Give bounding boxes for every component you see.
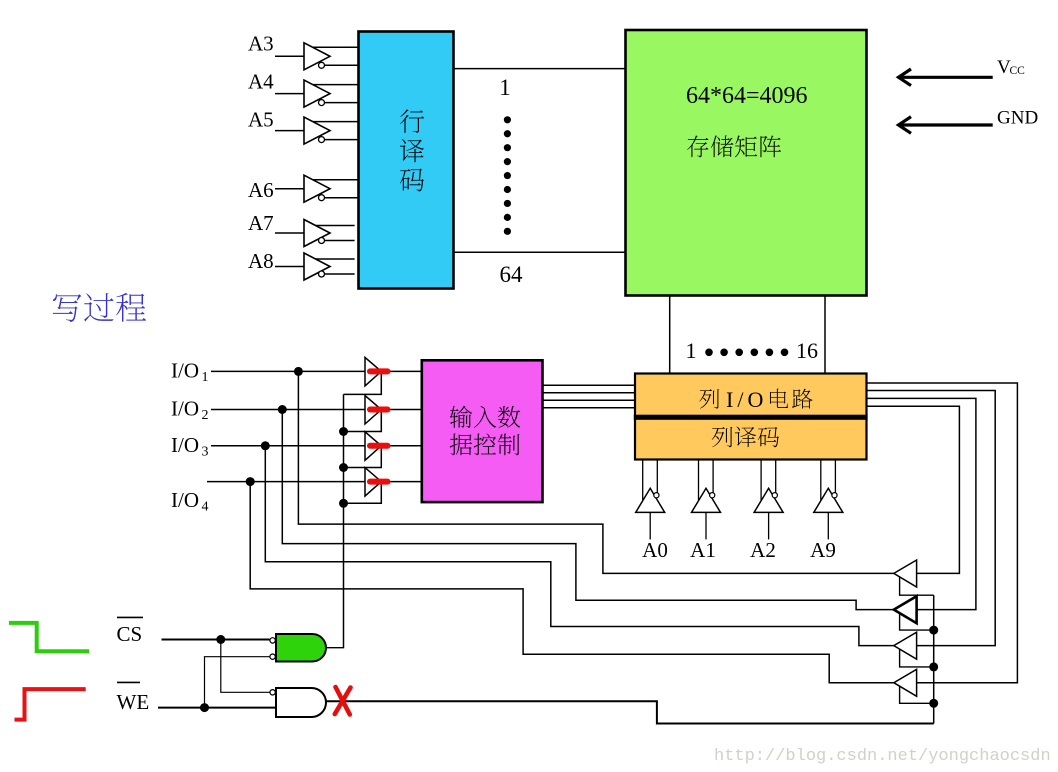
waveform WE (red, rising)	[15, 689, 86, 720]
svg-text:3: 3	[202, 444, 209, 459]
svg-text:I/O: I/O	[171, 397, 199, 421]
wire columnIO-to-R3	[867, 391, 996, 646]
address buffer A8 (with complement bubble)	[275, 253, 355, 280]
wire write-enable bus	[343, 394, 345, 647]
red arrow mark W2	[370, 407, 388, 413]
wire R3-to-I/O3	[265, 446, 894, 646]
ellipsis columns 1..16	[705, 349, 788, 357]
address buffer A7 (with complement bubble)	[275, 220, 355, 247]
column address buffer A1	[692, 460, 721, 539]
svg-text:A6: A6	[248, 178, 274, 202]
wire columnIO-to-R4	[867, 383, 1018, 683]
wire R4-to-I/O4	[250, 482, 894, 683]
svg-text:1: 1	[499, 75, 511, 100]
read buffer R1	[894, 560, 917, 587]
svg-text:A0: A0	[642, 538, 668, 562]
wire WE-to-G1	[205, 657, 270, 708]
wire row 1	[454, 68, 626, 70]
junction read enable bus R3	[929, 662, 938, 671]
wire row 64	[454, 251, 626, 253]
svg-text:WE: WE	[117, 690, 150, 714]
read buffer R3	[894, 632, 917, 659]
svg-text:A4: A4	[248, 70, 274, 94]
junction enable bus W4	[339, 499, 348, 508]
label Vcc	[997, 57, 1025, 78]
red arrow mark W3	[370, 443, 388, 449]
power Vcc arrow	[899, 69, 993, 86]
svg-text:I/O: I/O	[726, 387, 767, 412]
memory matrix box 存储矩阵	[626, 30, 867, 296]
divider column boxes	[634, 415, 868, 420]
write buffer W3	[365, 432, 381, 461]
junction I/O2	[278, 405, 287, 414]
svg-text:GND: GND	[997, 107, 1038, 128]
wire matrix column right	[824, 295, 826, 375]
junction I/O1	[294, 367, 303, 376]
wire R1 enable	[900, 577, 934, 595]
wire R1-to-I/O1	[298, 371, 893, 573]
wire matrix column left	[669, 295, 671, 375]
address buffer A6 (with complement bubble)	[275, 175, 359, 202]
red arrow mark W1	[370, 368, 388, 374]
wire R2 enable	[900, 614, 934, 631]
junction enable bus W3	[339, 463, 348, 472]
port label I/O2	[171, 397, 209, 424]
wire R4 enable	[900, 687, 934, 704]
wire data D4 control-to-columnIO	[543, 407, 636, 409]
wire data D3 control-to-columnIO	[543, 399, 636, 401]
junction WE	[200, 703, 209, 712]
port label I/O3	[171, 433, 209, 460]
column decoder box 列译码	[635, 419, 867, 460]
address buffer A5 (with complement bubble)	[275, 117, 359, 144]
wire R3 enable	[900, 650, 934, 667]
waveform CS (green, falling)	[9, 623, 89, 651]
wire data D2 control-to-columnIO	[543, 392, 636, 394]
wire CS input	[162, 639, 270, 641]
svg-text:2: 2	[202, 408, 209, 423]
AND gate G2 (read select)	[270, 688, 326, 717]
svg-text:64: 64	[500, 262, 524, 287]
column I/O box 列I/O电路	[635, 374, 867, 417]
wire I/O1 input	[211, 370, 422, 372]
wire WE input	[158, 707, 276, 709]
row decoder box 行译码	[359, 32, 454, 289]
memory matrix label 存储矩阵	[687, 135, 708, 157]
wire W1 enable	[344, 371, 382, 394]
svg-text:A8: A8	[248, 249, 274, 273]
column decoder label 列译码	[712, 427, 733, 447]
input data control label 据控制	[450, 434, 472, 456]
AND gate G1 (write select, green)	[270, 634, 326, 662]
svg-text:http://blog.csdn.net/yongchaoc: http://blog.csdn.net/yongchaocsdn	[714, 747, 1051, 766]
port label I/O4	[171, 488, 209, 515]
svg-text:I/O: I/O	[171, 358, 199, 382]
wire W4 enable	[344, 482, 382, 504]
svg-text:I/O: I/O	[171, 433, 199, 457]
red arrow mark W4	[370, 479, 388, 485]
wire R2-to-I/O2	[282, 410, 894, 610]
wire read-enable bus	[933, 595, 935, 723]
wire W2 enable	[344, 410, 382, 432]
column I/O label 列I/O电路	[699, 387, 812, 412]
ground GND arrow	[899, 117, 993, 134]
title 写过程 (write process)	[53, 294, 82, 322]
wire I/O2 input	[211, 409, 422, 411]
write buffer W2	[365, 396, 381, 425]
input data control label 输入数	[450, 406, 472, 428]
wire columnIO-to-R1	[867, 406, 960, 573]
junction I/O4	[246, 477, 255, 486]
wire I/O3 input	[211, 445, 422, 447]
junction CS	[216, 635, 225, 644]
svg-text:A1: A1	[690, 538, 716, 562]
svg-text:1: 1	[202, 370, 209, 385]
disabled mark red X on G2 output	[335, 687, 351, 715]
svg-text:16: 16	[796, 338, 818, 363]
svg-text:64*64=4096: 64*64=4096	[686, 83, 808, 109]
junction read enable bus R2	[929, 626, 938, 635]
svg-text:1: 1	[686, 338, 697, 363]
read buffer R4	[894, 669, 917, 696]
junction enable bus W2	[339, 427, 348, 436]
port label I/O1	[171, 358, 209, 385]
svg-text:CS: CS	[117, 622, 143, 646]
wire I/O4 input	[207, 481, 422, 483]
ellipsis rows 1..64	[504, 116, 511, 235]
wire data D1 control-to-columnIO	[543, 384, 636, 386]
svg-text:CC: CC	[1010, 65, 1026, 77]
write buffer W4	[365, 468, 381, 497]
signal label WE(bar)	[117, 682, 150, 714]
svg-text:4: 4	[202, 500, 209, 515]
column address buffer A0	[636, 460, 665, 539]
wire G2 output to read-enable bus	[326, 701, 934, 723]
wire W3 enable	[344, 446, 382, 468]
row decoder label 行译码	[400, 109, 424, 191]
address buffer A3 (with complement bubble)	[275, 43, 359, 70]
svg-text:A2: A2	[750, 538, 776, 562]
junction I/O3	[261, 441, 270, 450]
signal label CS(bar)	[117, 617, 144, 646]
input data control box 输入数据控制	[422, 360, 543, 502]
read buffer R2	[894, 596, 917, 623]
svg-text:A9: A9	[810, 538, 836, 562]
svg-text:I/O: I/O	[171, 488, 199, 512]
column address buffer A9	[814, 460, 843, 539]
address buffer A4 (with complement bubble)	[275, 80, 359, 107]
write buffer W1	[365, 357, 381, 386]
wire columnIO-to-R2	[867, 398, 976, 609]
wire G1 output to write-enable bus	[326, 646, 344, 649]
svg-text:A3: A3	[248, 32, 274, 56]
svg-text:A7: A7	[248, 211, 274, 235]
column address buffer A2	[754, 460, 783, 539]
junction read enable bus R4	[929, 699, 938, 708]
wire CS-to-G2	[221, 640, 270, 693]
svg-text:A5: A5	[248, 108, 274, 132]
